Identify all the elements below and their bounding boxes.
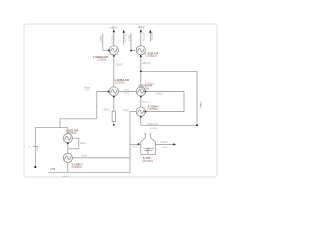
net flag V+ arrow line above Q2 — [140, 32, 142, 46]
svg-text:GB(.P): GB(.P) — [116, 64, 124, 67]
arrow net flag above Q2 — [140, 29, 142, 32]
svg-text:GB(1): GB(1) — [103, 109, 110, 112]
svg-text:GB(.P1): GB(.P1) — [142, 62, 151, 65]
svg-text:(0.70): (0.70) — [124, 93, 130, 95]
wire Q3 base to bias network — [60, 92, 109, 128]
wire Q2 base to left riser — [131, 33, 136, 50]
svg-text:V.BB2: V.BB2 — [128, 34, 131, 41]
node dot Vout junction — [196, 124, 198, 126]
node dot Q2 base junction — [130, 50, 132, 52]
svg-text:Reference: Reference — [147, 123, 159, 126]
svg-text:Gn(1): Gn(1) — [81, 155, 87, 158]
wire supply branch left with source B1 — [35, 128, 68, 167]
transistor Q7 — [63, 153, 72, 162]
node dot Q3 emitter — [113, 96, 115, 98]
node dot Q6 emitter — [67, 142, 69, 144]
svg-text:OUT: OUT — [132, 145, 138, 148]
svg-text:GB(.P1): GB(.P1) — [142, 102, 150, 104]
node dot X1 input — [138, 143, 140, 145]
source B1 plate tick — [33, 146, 38, 148]
svg-text:GN(1): GN(1) — [156, 92, 163, 95]
svg-text:B1: B1 — [36, 148, 38, 150]
node dot feedback tap junction — [140, 70, 142, 72]
wire Q6 collector loop to Q7 base — [68, 138, 79, 149]
wire Q4 emitter down to Q5 collector — [140, 96, 142, 107]
wire X1 output lead — [155, 143, 173, 145]
wire node junction to right rail down to Vout — [141, 71, 197, 125]
svg-text:(+2.04V): (+2.04V) — [149, 128, 157, 130]
node dot Q3 base terminal — [108, 91, 110, 93]
wire Q2 emitter down to Q4 collector — [140, 55, 142, 87]
transistor Q5 — [136, 107, 145, 116]
wire Q6 emitter to Q7 collector node — [67, 143, 69, 154]
svg-text:(0.5V): (0.5V) — [162, 147, 168, 149]
svg-text:(2N3904): (2N3904) — [97, 59, 107, 62]
module X1 E-055 body — [141, 134, 156, 155]
resistor R1 — [112, 111, 115, 121]
node dot Q4 emitter — [140, 96, 142, 98]
transistor Q4 — [136, 87, 145, 96]
node dot Q5 emitter — [140, 116, 142, 118]
node dot Q1 emitter — [113, 55, 115, 57]
wire Q3 to Q4 horizontal — [118, 91, 136, 93]
svg-text:Output: Output — [161, 141, 169, 144]
svg-text:1-3GB A/R: 1-3GB A/R — [145, 51, 159, 55]
svg-text:(2N3904): (2N3904) — [67, 132, 77, 135]
svg-text:(LM-9687): (LM-9687) — [142, 160, 153, 163]
node dot Q1 base terminal — [108, 49, 110, 51]
transistor Q1 — [109, 46, 118, 55]
svg-text:GN(.P1): GN(.P1) — [145, 83, 154, 86]
arrow net flag right stub of Q2 — [149, 30, 151, 33]
transistor Q2 — [136, 46, 145, 55]
svg-text:E-055: E-055 — [143, 156, 151, 160]
svg-text:(2.2V): (2.2V) — [84, 90, 90, 92]
svg-text:V.CC2A: V.CC2A — [143, 32, 146, 41]
wire left riser to X1 input — [130, 143, 138, 145]
wire Q5 emitter down and right to Vout node — [141, 116, 197, 125]
wire Q3 emitter down to R1 — [113, 96, 115, 111]
svg-text:V.CC1A: V.CC1A — [111, 35, 114, 44]
svg-text:(dw75): (dw75) — [62, 176, 68, 178]
transistor Q3 — [109, 87, 118, 96]
svg-text:1-2NB-C: 1-2NB-C — [72, 163, 83, 167]
node dot Q4 collector right — [144, 91, 146, 93]
wire Q1 emitter down to Q3 collector — [113, 55, 115, 87]
wire ground rail — [48, 158, 130, 172]
wire Q4 feedback loop to Q5 — [145, 92, 184, 112]
arrow net flag right stub of Q1 — [123, 30, 125, 33]
net flag stub right of Q2 — [149, 32, 151, 42]
svg-text:Vbias: Vbias — [84, 86, 91, 89]
svg-text:(2N3906): (2N3906) — [148, 108, 158, 111]
node dot Q2 emitter — [140, 55, 142, 57]
wire Q7 collector to left riser — [72, 157, 130, 159]
node dot Q5 collector right — [144, 111, 146, 113]
arrow R1 bottom — [113, 124, 115, 126]
svg-text:(2N3904): (2N3904) — [146, 55, 156, 58]
svg-text:R1(1): R1(1) — [123, 109, 129, 112]
svg-text:2 TB: 2 TB — [50, 168, 55, 171]
svg-text:V.BB1: V.BB1 — [100, 35, 103, 42]
node dot source bottom — [34, 166, 36, 168]
wire Q5 base to left riser — [130, 112, 136, 158]
wire Q1 base to left riser — [103, 34, 110, 51]
net flag V+ arrow line above Q1 — [113, 32, 115, 46]
svg-text:(2N3904): (2N3904) — [115, 82, 125, 85]
svg-text:(2N3904): (2N3904) — [139, 88, 149, 91]
wire R1 bottom stub — [113, 122, 115, 126]
arrow output terminal — [173, 143, 176, 145]
net flag stub right of Q1 — [123, 32, 125, 45]
arrow net flag above Q1 — [113, 29, 115, 32]
svg-text:GN(1): GN(1) — [124, 90, 130, 92]
svg-text:(2N3904): (2N3904) — [72, 166, 82, 169]
wire Q7 emitter to ground rail — [67, 162, 69, 172]
svg-text:V.CC2B: V.CC2B — [151, 31, 154, 40]
svg-text:V.CC1B: V.CC1B — [125, 33, 128, 42]
svg-text:Ga(1): Ga(1) — [80, 142, 86, 145]
transistor Q6 — [63, 134, 72, 143]
